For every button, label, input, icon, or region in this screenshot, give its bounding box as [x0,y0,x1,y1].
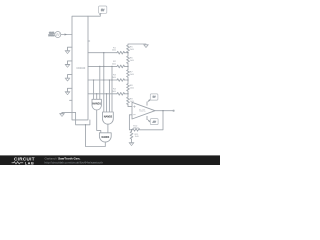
wire output Q1 [88,52,117,54]
resistor R9 [127,97,130,105]
op-amp power stub top [146,102,148,105]
wire bus C [99,66,101,99]
wire gate3 out loop [86,125,106,147]
resistor R3 [117,79,125,82]
wire VDD to top flag [88,14,100,16]
resistor R7 [127,70,130,78]
wire ladder top [128,44,146,45]
ground flag pin 3 [65,75,72,81]
svg-text:2kΩ: 2kΩ [130,49,134,51]
svg-text:1kΩ: 1kΩ [130,74,134,76]
op-amp U2 [132,102,155,119]
resistor R8 [127,84,130,92]
svg-text:1kΩ: 1kΩ [130,60,134,62]
wire gate2 out [107,124,109,133]
wire inverting node [129,115,132,130]
plus mark [133,106,135,108]
svg-text:-5V: -5V [152,121,156,123]
svg-text:2kΩ: 2kΩ [112,77,116,79]
svg-text:680Ω: 680Ω [133,128,139,130]
resistor R1 [117,51,125,54]
svg-text:NAND1: NAND1 [93,102,102,106]
counter IC U1 body [72,16,88,120]
ground flag reset [60,112,65,116]
wire [127,77,129,83]
svg-text:1kΩ: 1kΩ [135,136,139,138]
output terminal [173,110,174,111]
wire bus F [108,80,110,112]
wire output Q3 [88,79,117,81]
power flag V- [147,119,158,125]
power flag V+ [147,94,158,103]
svg-text:http://circuitlab.com/circuit/: http://circuitlab.com/circuit/6zv94w/saw… [45,161,104,165]
svg-text:1kΩ: 1kΩ [130,101,134,103]
wire [127,64,129,70]
resistor R2 [117,65,125,68]
wire output Q2 [88,65,117,67]
power flag VDD 5V [99,6,107,14]
junction dots [85,52,164,130]
gate U3 NAND1 [92,99,101,110]
gate U4 NAND2 [103,112,114,124]
wire op-amp output [155,110,174,112]
ground ladder top [144,45,149,48]
gate U5 NAND3 [99,133,111,142]
resistor R6 [127,56,130,64]
ground feedback [129,143,134,146]
svg-text:2kΩ: 2kΩ [112,50,116,52]
svg-text:NAND3: NAND3 [101,136,109,139]
svg-text:LAB: LAB [25,161,34,165]
wire [127,91,129,97]
wire [127,53,129,57]
arrowhead on clock wire [65,33,67,35]
wire gate1 out [97,110,101,133]
wire bus G [111,66,113,112]
stub pin right [88,40,90,42]
wire output Q4 [88,93,117,95]
stub pin left [70,99,72,101]
wire bus A [93,80,95,99]
resistor R4 [117,92,125,95]
wire bus B [96,94,98,100]
svg-text:5V: 5V [101,8,104,12]
clock source V1 [55,32,61,38]
wire bus E [106,94,108,112]
wire bus D [103,53,105,112]
op-amp input stub inverting [129,114,132,116]
svg-text:CD4040: CD4040 [76,67,85,70]
ground flag pin 2 [65,61,72,67]
svg-text:NAND2: NAND2 [104,115,113,119]
wire feedback [140,111,163,130]
svg-text:TL071: TL071 [139,110,146,112]
footer bar [0,155,220,165]
ground flag pin 1 [65,47,72,53]
resistor R11 [131,130,133,132]
resistor R10 [132,128,140,131]
op-amp power stub bottom [146,116,148,119]
svg-text:1kΩ: 1kΩ [130,88,134,90]
ground flag pin 4 [65,88,72,94]
svg-text:2kΩ: 2kΩ [112,91,116,93]
resistor R5 [127,45,130,53]
svg-text:10kHz: 10kHz [48,35,54,37]
wire ladder to op-amp [128,105,132,107]
svg-text:2kΩ: 2kΩ [112,63,116,65]
wire clock to U1 [61,34,72,36]
wire reset net [62,112,90,124]
minus mark [133,114,135,116]
